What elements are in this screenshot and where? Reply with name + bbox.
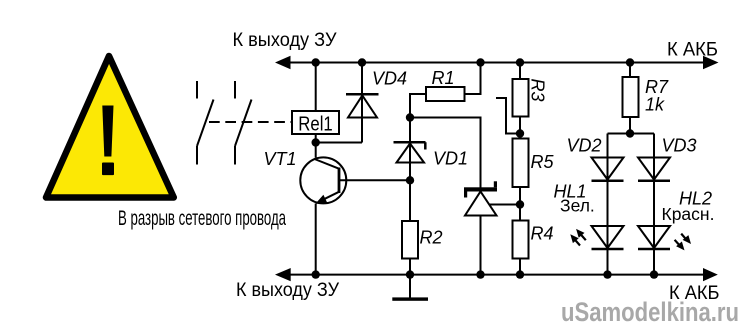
svg-text:R2: R2: [420, 228, 443, 248]
svg-text:VT1: VT1: [264, 149, 297, 169]
svg-text:Зел.: Зел.: [560, 196, 595, 216]
svg-text:Красн.: Красн.: [662, 204, 715, 224]
svg-text:VD4: VD4: [372, 68, 407, 88]
svg-text:К выходу ЗУ: К выходу ЗУ: [233, 29, 338, 51]
svg-text:VD1: VD1: [433, 149, 468, 169]
svg-text:R4: R4: [531, 224, 554, 244]
svg-text:1k: 1k: [645, 95, 665, 115]
svg-text:uSamodelkina.ru: uSamodelkina.ru: [561, 297, 739, 327]
svg-text:К выходу ЗУ: К выходу ЗУ: [236, 279, 340, 301]
svg-text:В разрыв сетевого провода: В разрыв сетевого провода: [118, 207, 286, 230]
svg-text:VD3: VD3: [662, 136, 697, 156]
svg-text:R3: R3: [528, 79, 548, 102]
svg-text:R5: R5: [531, 152, 555, 172]
svg-text:R1: R1: [432, 68, 455, 88]
svg-text:VD2: VD2: [567, 136, 602, 156]
svg-text:К АКБ: К АКБ: [667, 39, 718, 61]
svg-text:Rel1: Rel1: [298, 113, 333, 136]
